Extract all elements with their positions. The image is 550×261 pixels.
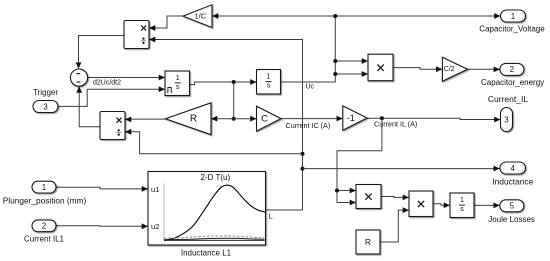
svg-text:4: 4 <box>510 164 515 173</box>
gain -1 <box>343 106 367 130</box>
arrow into port3 <box>494 117 500 123</box>
wire Uc branch to product input2 <box>335 73 368 75</box>
svg-text:1: 1 <box>267 74 271 81</box>
svg-text:s: s <box>267 83 271 90</box>
svg-text:2-D T(u): 2-D T(u) <box>200 173 230 182</box>
wire Current IL1 to lookup u2 <box>56 225 148 228</box>
svg-text:1: 1 <box>460 197 464 204</box>
wire to C gain <box>234 118 257 120</box>
junction L to divide2 <box>301 152 305 156</box>
svg-text:Joule Losses: Joule Losses <box>488 215 535 224</box>
arrow into port4 <box>494 166 500 172</box>
arrow into integrator2 <box>250 79 256 85</box>
inport Plunger_position <box>32 181 56 193</box>
product Uc squared <box>368 54 393 80</box>
arrow into Uc-square input2 <box>362 71 368 77</box>
gain C <box>257 106 282 131</box>
arrow into port2 <box>494 67 500 73</box>
lookup bell curve <box>164 185 265 240</box>
wire top net Uc to 1/C and port1 <box>212 15 501 17</box>
arrow into integrator1 reset <box>159 86 165 92</box>
wire C gain output Current IC to -1 gain <box>281 118 343 120</box>
arrow into divide1 x input <box>149 25 155 31</box>
svg-text:Current IL1: Current IL1 <box>24 234 65 243</box>
wire Uc-square output to C/2 gain <box>393 68 442 70</box>
svg-text:Inductance: Inductance <box>492 176 533 186</box>
arrow into integrator1 input <box>159 75 165 81</box>
svg-text:1: 1 <box>42 183 47 192</box>
wire Uc branch to product input1 <box>335 60 368 62</box>
svg-text:Plunger_position (mm): Plunger_position (mm) <box>3 195 87 205</box>
junction R C feed <box>232 117 236 121</box>
svg-text:2: 2 <box>42 222 47 231</box>
junction dUc/dt <box>232 80 236 84</box>
svg-text:1: 1 <box>176 75 180 82</box>
gain 1/C <box>183 5 212 28</box>
wire C/2 output to port2 <box>468 68 500 70</box>
wire 1/C gain output to divide1 <box>149 16 183 28</box>
svg-text:s: s <box>460 206 464 213</box>
arrow into C/2 gain <box>436 66 442 72</box>
outport 2 Capacitor_energy <box>500 63 524 75</box>
outport 1 Capacitor_Voltage <box>501 10 526 22</box>
arrow into -1 gain <box>337 116 343 122</box>
svg-text:R: R <box>190 114 197 125</box>
wire dUc/dt down to R and C gains <box>233 82 235 119</box>
wire to R gain <box>211 118 234 120</box>
wire R constant output to mult4 <box>380 210 409 242</box>
product IL squared <box>356 185 381 209</box>
arrow into mult3 input2 <box>350 200 356 206</box>
svg-text:d2Uc/dt2: d2Uc/dt2 <box>93 79 121 86</box>
svg-text:Current IC (A): Current IC (A) <box>286 121 331 130</box>
svg-text:3: 3 <box>504 115 509 124</box>
arrow into mult4 input2 <box>403 207 409 213</box>
arrow into divide1 div input <box>149 37 155 43</box>
divide block Divide2 <box>100 112 125 140</box>
arrow into Uc-square input1 <box>362 58 368 64</box>
svg-text:u2: u2 <box>151 222 159 231</box>
integrator3 <box>450 193 474 218</box>
gain R <box>166 103 212 135</box>
lookup flat curve solid <box>164 238 265 239</box>
svg-text:Inductance L1: Inductance L1 <box>181 249 232 258</box>
svg-text:s: s <box>176 84 180 91</box>
product R IL2 <box>409 191 433 217</box>
junction top Uc <box>333 14 337 18</box>
junction Uc square in1 <box>333 59 337 63</box>
svg-text:L: L <box>269 211 273 220</box>
svg-text:5: 5 <box>510 202 515 211</box>
arrow into lookup u1 <box>142 186 148 192</box>
svg-text:C: C <box>261 113 268 124</box>
sum block <box>70 69 87 86</box>
wire divide2 output to sum <box>79 87 100 127</box>
lookup table Inductance L1 <box>148 172 266 246</box>
svg-text:Current IL (A): Current IL (A) <box>374 120 417 129</box>
wire divide1 output to sum <box>79 36 125 64</box>
gain C/2 <box>442 57 467 81</box>
arrow into divide2 div input <box>125 129 131 135</box>
outport 5 Joule Losses <box>500 200 524 212</box>
outport 3 Current_IL <box>501 108 513 132</box>
svg-text:Current_IL: Current_IL <box>488 94 528 104</box>
arrow into mult3 input1 <box>350 188 356 194</box>
arrow into C gain <box>250 116 256 122</box>
svg-text:1: 1 <box>511 12 516 21</box>
arrow into 1/C gain <box>212 13 218 19</box>
svg-text:u1: u1 <box>151 185 159 194</box>
outport 4 Inductance <box>500 162 526 174</box>
wire Uc output of integrator2 <box>281 16 336 82</box>
wire Current IL branch to mult3 input1 <box>337 190 356 192</box>
svg-text:Uc: Uc <box>306 84 315 91</box>
lookup x axis baseline <box>164 239 265 241</box>
arrow into sum bottom <box>76 86 82 92</box>
wire integrator1 output to integrator2 <box>190 82 257 85</box>
junction Current IL <box>380 116 384 120</box>
svg-text:Capacitor_Voltage: Capacitor_Voltage <box>479 24 545 33</box>
inport Current IL1 <box>32 220 56 232</box>
wire Current IL down-left branch <box>337 118 382 202</box>
arrow into integrator3 <box>444 202 450 208</box>
svg-text:Capacitor_energy: Capacitor_energy <box>481 78 544 87</box>
wire trigger to integrator1 reset <box>58 89 165 106</box>
wire -1 gain output Current IL to port3 <box>367 118 500 119</box>
integrator2 <box>257 70 281 95</box>
svg-text:3: 3 <box>43 102 48 111</box>
wire mult4 output to integrator3 <box>433 204 450 206</box>
svg-text:R: R <box>365 237 371 247</box>
svg-text:2: 2 <box>510 65 515 74</box>
arrow into port5 <box>494 202 500 208</box>
wire Plunger_position to lookup u1 <box>56 187 148 189</box>
wire L branch to port4 Inductance <box>303 168 500 170</box>
wire L net from lookup up to divide1 <box>149 40 303 211</box>
arrow into port1 <box>494 13 500 19</box>
wire sum output d2Uc/dt2 <box>88 77 165 79</box>
arrow into R gain <box>211 116 217 122</box>
constant R <box>356 230 380 254</box>
junction IL square <box>335 189 339 193</box>
junction Uc square in2 <box>333 72 337 76</box>
arrow into lookup u2 <box>142 223 148 229</box>
arrow into mult4 input1 <box>403 195 409 201</box>
integrator1 resettable <box>165 71 190 96</box>
arrow into sum top <box>76 62 82 68</box>
wire mult3 output to mult4 <box>381 196 409 199</box>
inport Trigger <box>33 101 58 113</box>
divide block Divide1 <box>124 21 149 49</box>
svg-text:-1: -1 <box>347 113 355 123</box>
wire R gain output to divide2 <box>125 118 166 120</box>
svg-text:1/C: 1/C <box>194 12 206 21</box>
junction L to port4 <box>301 167 305 171</box>
wire integrator3 output to port5 <box>474 204 500 206</box>
lookup flat curve dashed <box>164 236 264 238</box>
svg-text:Trigger: Trigger <box>33 88 58 97</box>
arrow into divide2 x input <box>125 117 131 123</box>
svg-text:C/2: C/2 <box>444 66 455 73</box>
wire L branch to divide2 <box>125 132 303 154</box>
lookup y axis <box>163 184 165 241</box>
